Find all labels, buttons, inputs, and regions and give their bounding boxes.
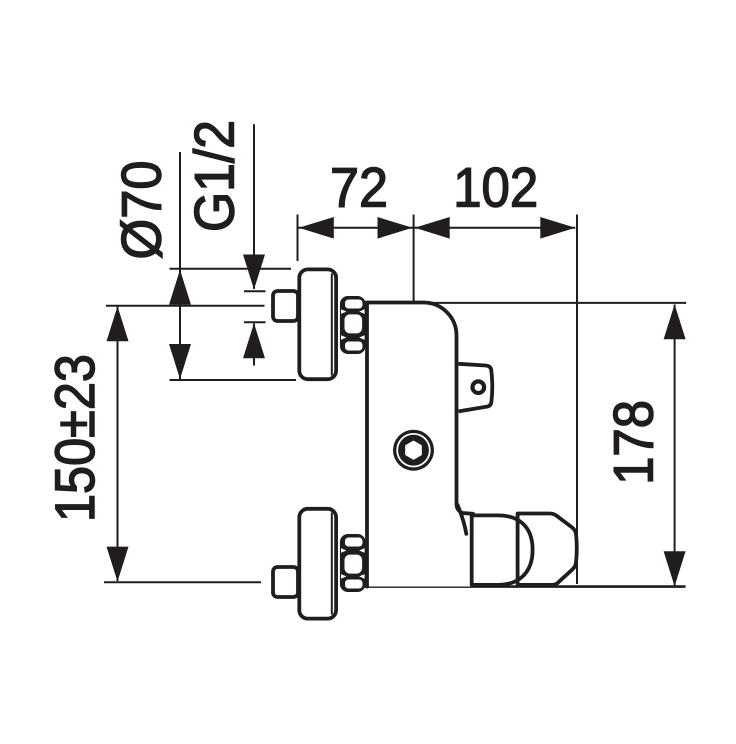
node 72 arrows [299, 217, 576, 239]
hex nut top [340, 296, 366, 354]
svg-text:Ø70: Ø70 [109, 161, 172, 260]
node 150 arrows [107, 306, 129, 581]
node 178 arrows [664, 304, 686, 586]
nipple G1/2 bottom [273, 567, 298, 597]
svg-text:G1/2: G1/2 [182, 120, 245, 232]
wire: 150 extension bottom [104, 581, 261, 583]
bottom S-union assembly (mirrored) [273, 509, 366, 619]
wire: baseline y=586.5 [365, 585, 686, 588]
hex nut bottom [340, 534, 366, 592]
wire: G1/2 dimension line upper x=254 [253, 124, 255, 289]
flange bottom [299, 509, 336, 619]
screw cap U [393, 430, 434, 471]
svg-text:102: 102 [453, 156, 538, 219]
svg-text:178: 178 [602, 400, 665, 485]
bracket on body right [459, 364, 493, 412]
node bracket hole [473, 381, 485, 393]
wire: G1/2 tick top [244, 290, 266, 292]
node G1/2 arrows [243, 255, 265, 359]
flange top [299, 269, 336, 379]
flange bottom inner line [331, 513, 333, 615]
wire: 178 dimension line x=674.6 [674, 305, 676, 586]
svg-text:150±23: 150±23 [43, 354, 106, 522]
wire: extension tick at x=297.5 [297, 215, 299, 262]
wire: dia70 extension line bottom [170, 379, 297, 381]
wire: 150 extension top (nipple center line) [106, 305, 265, 307]
wire: extension line at x=577 [576, 215, 578, 585]
wire: dia70 extension line top [170, 268, 292, 270]
wire: G1/2 tick bottom [244, 321, 266, 323]
wire: dia70 dimension line x=180 [179, 152, 181, 380]
cartridge cap D and handle [472, 514, 577, 585]
flange top inner line [331, 274, 333, 376]
wire: center extension line at x=413.6 [413, 215, 415, 432]
wire: top dimension line y=228 [298, 227, 576, 229]
wire: G1/2 dimension line lower [253, 324, 255, 366]
node body spout beak [458, 505, 467, 534]
wire: 150 dimension line x=117.5 [117, 307, 119, 582]
node dia70 arrows [169, 270, 191, 379]
svg-text:72: 72 [330, 156, 388, 219]
top S-union assembly [273, 269, 366, 379]
wire: 178 extension line top [430, 302, 686, 304]
faucet body [367, 303, 473, 587]
nipple G1/2 top [273, 291, 298, 321]
